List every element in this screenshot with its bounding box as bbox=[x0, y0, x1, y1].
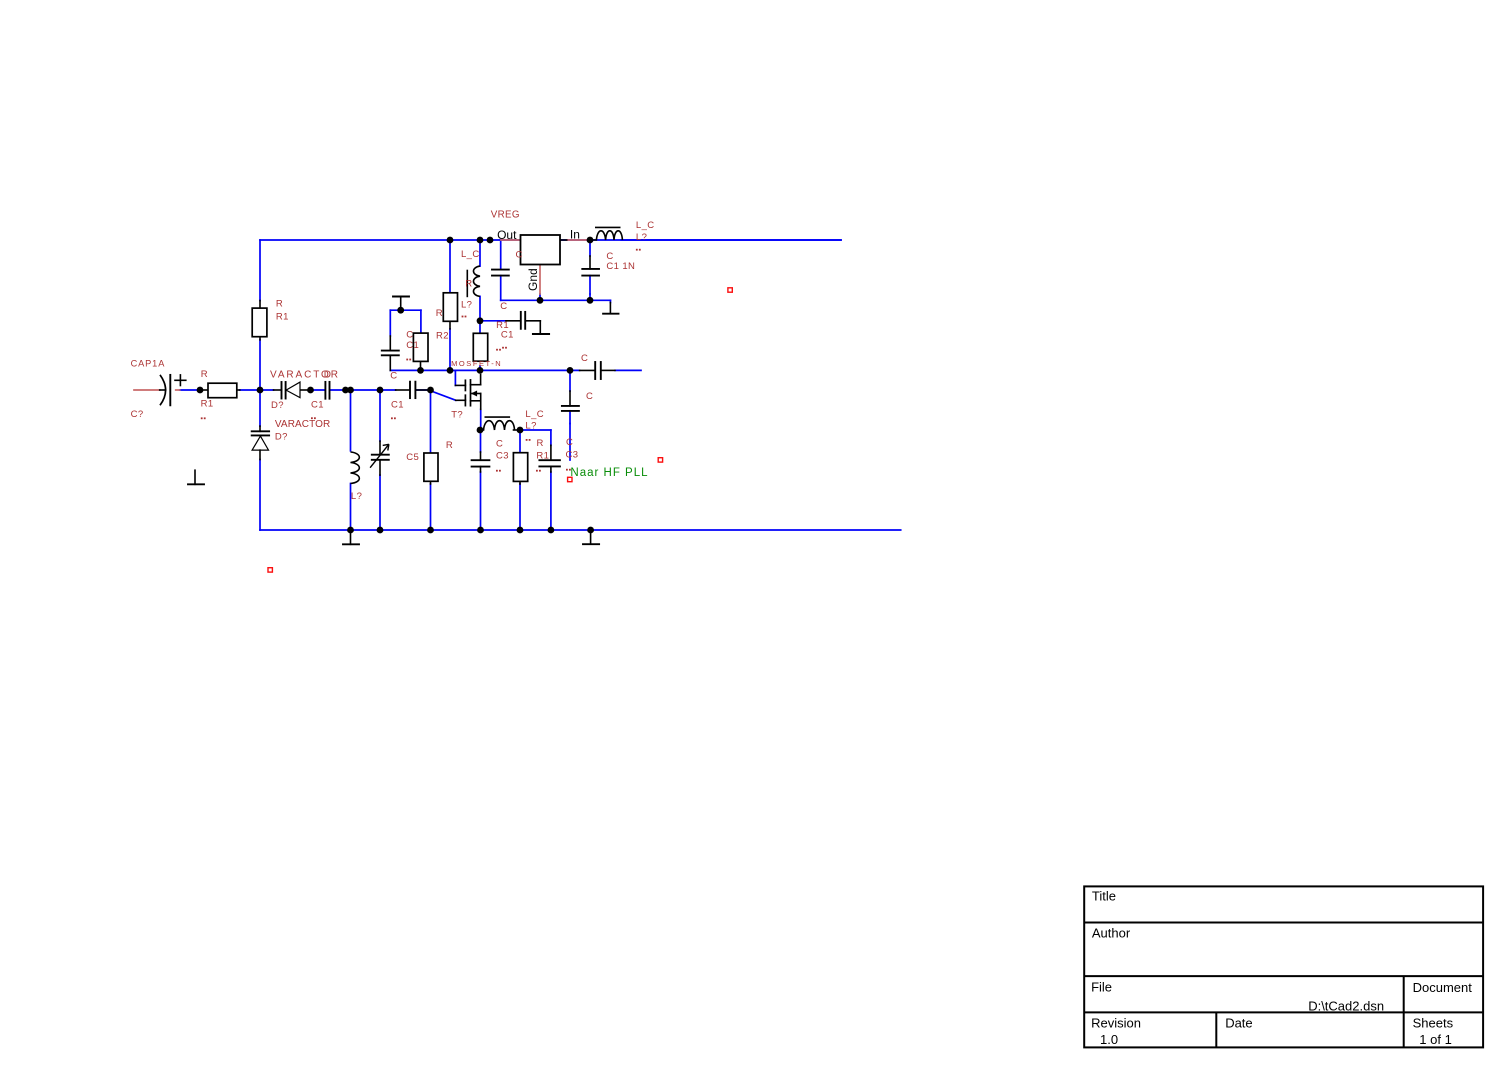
svg-text:L?: L? bbox=[525, 420, 536, 431]
svg-text:R: R bbox=[537, 438, 544, 449]
svg-text:File: File bbox=[1091, 979, 1112, 994]
svg-text:C: C bbox=[516, 250, 523, 261]
svg-text:Out: Out bbox=[497, 228, 517, 242]
svg-text:C: C bbox=[581, 353, 588, 364]
svg-text:C: C bbox=[390, 370, 397, 381]
svg-text:L?: L? bbox=[351, 491, 362, 502]
svg-text:C1: C1 bbox=[501, 329, 514, 340]
svg-text:L_C: L_C bbox=[636, 220, 655, 231]
svg-text:C1: C1 bbox=[406, 340, 419, 351]
svg-text:MOSFET-N: MOSFET-N bbox=[451, 359, 502, 368]
svg-text:R: R bbox=[436, 308, 443, 319]
svg-text:Revision: Revision bbox=[1091, 1016, 1141, 1031]
svg-text:D: D bbox=[324, 370, 331, 381]
svg-text:C3: C3 bbox=[496, 450, 509, 461]
svg-text:L_C: L_C bbox=[461, 249, 480, 260]
svg-text:In: In bbox=[570, 228, 580, 242]
svg-text:C: C bbox=[500, 301, 507, 312]
svg-text:C: C bbox=[406, 329, 413, 340]
svg-text:R: R bbox=[201, 369, 208, 380]
svg-text:D:\tCad2.dsn: D:\tCad2.dsn bbox=[1308, 998, 1384, 1013]
svg-text:C5: C5 bbox=[406, 452, 419, 463]
svg-text:1.0: 1.0 bbox=[1100, 1032, 1118, 1047]
svg-text:R: R bbox=[465, 279, 472, 290]
svg-text:C1: C1 bbox=[311, 399, 324, 410]
svg-text:L_C: L_C bbox=[525, 409, 544, 420]
svg-text:C3: C3 bbox=[566, 450, 579, 461]
svg-text:CAP1A: CAP1A bbox=[131, 358, 166, 368]
svg-text:VREG: VREG bbox=[491, 209, 520, 220]
svg-text:VARACTOR: VARACTOR bbox=[275, 419, 330, 430]
svg-text:1 of 1: 1 of 1 bbox=[1419, 1032, 1452, 1047]
svg-text:R1: R1 bbox=[201, 399, 214, 410]
svg-text:D?: D? bbox=[271, 400, 284, 411]
svg-text:L?: L? bbox=[636, 232, 647, 243]
svg-text:Naar HF PLL: Naar HF PLL bbox=[570, 467, 648, 479]
svg-text:C: C bbox=[566, 437, 573, 448]
svg-text:D?: D? bbox=[275, 431, 288, 442]
svg-text:R: R bbox=[446, 440, 453, 451]
svg-text:C1: C1 bbox=[391, 400, 404, 411]
svg-text:Gnd: Gnd bbox=[526, 268, 540, 291]
svg-text:Sheets: Sheets bbox=[1413, 1016, 1454, 1031]
svg-text:R1: R1 bbox=[536, 450, 549, 461]
svg-text:C: C bbox=[586, 391, 593, 402]
svg-text:T?: T? bbox=[451, 410, 463, 421]
svg-text:R1: R1 bbox=[276, 311, 289, 322]
svg-text:Document: Document bbox=[1413, 980, 1473, 995]
svg-text:Date: Date bbox=[1225, 1016, 1252, 1031]
svg-text:C?: C? bbox=[131, 409, 144, 420]
svg-text:R: R bbox=[276, 298, 283, 309]
svg-text:Author: Author bbox=[1092, 926, 1131, 941]
svg-text:R2: R2 bbox=[436, 330, 449, 341]
svg-text:L?: L? bbox=[461, 299, 472, 310]
svg-text:C1 1N: C1 1N bbox=[606, 261, 635, 272]
svg-text:C: C bbox=[496, 438, 503, 449]
svg-text:Title: Title bbox=[1092, 889, 1116, 904]
